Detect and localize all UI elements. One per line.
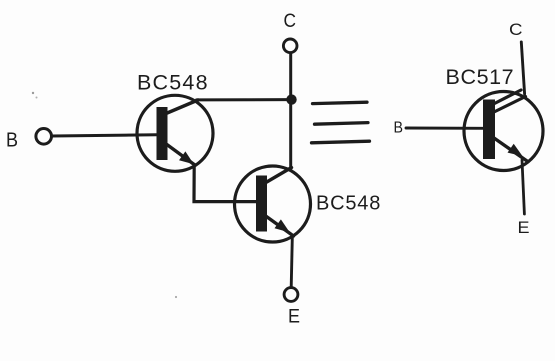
wire B to Q1 base	[52, 135, 158, 136]
wire B to BC517 base	[406, 127, 483, 130]
wire Q2 emitter to terminal E	[291, 238, 292, 288]
terminal E (open circle)	[284, 288, 298, 302]
wire Q1 collector to node	[197, 98, 289, 101]
node junction (dot)	[286, 94, 296, 104]
svg-text:BC548: BC548	[137, 71, 209, 95]
equivalence sign line 2	[315, 123, 369, 125]
equivalence sign line 3	[312, 141, 370, 143]
svg-text:B: B	[6, 130, 18, 152]
transistor Q1 BC548	[137, 95, 213, 171]
terminal B (open circle)	[36, 129, 52, 145]
svg-text:B: B	[394, 120, 404, 137]
wire node to terminal C	[289, 53, 292, 99]
wire BC517 collector to C	[521, 42, 524, 94]
equivalence sign line 1	[313, 102, 368, 103]
transistor Q2 BC548	[235, 166, 311, 242]
svg-text:E: E	[518, 218, 530, 237]
svg-text:C: C	[509, 20, 523, 39]
wire Q1 emitter to Q2 base	[194, 165, 257, 202]
terminal C (open circle)	[283, 39, 297, 53]
svg-text:C: C	[284, 11, 297, 32]
transistor U2 BC517 (Darlington)	[464, 90, 543, 171]
wire node to Q2 collector	[289, 99, 292, 171]
svg-text:E: E	[288, 307, 300, 328]
wire BC517 emitter to E	[522, 160, 524, 214]
svg-text:BC548: BC548	[316, 193, 381, 215]
svg-text:BC517: BC517	[446, 65, 515, 89]
